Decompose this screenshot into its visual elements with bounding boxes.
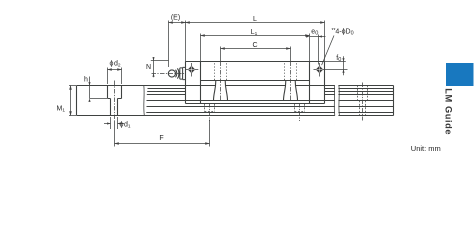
dim N [151,60,169,62]
svg-text:ϕ d2: ϕ d2 [109,61,120,69]
svg-text:e0: e0 [311,29,318,37]
counterbore hole (sectioned) [108,86,122,116]
top dim extension lines [169,21,325,68]
svg-text:L: L [253,16,257,23]
leader 4-phiD0 [322,36,334,66]
hole 2 centerline [290,62,292,102]
LM block outline [186,62,325,104]
left hole centerline [114,81,116,122]
left rail section outline [77,86,145,116]
rail hidden hole in right rail portion [358,86,368,116]
svg-text:f0: f0 [336,55,341,63]
block top mounting hole 1 dashes [215,63,227,80]
rail hidden hole under block left [205,104,215,112]
trumpet 1 sides [214,81,228,101]
svg-text:C: C [252,42,257,49]
rail hidden hole right portion centerline [362,83,364,121]
dim C line [221,48,291,50]
diamond mark right (grease hole) [314,63,326,77]
svg-text:L1: L1 [251,29,258,37]
dim phi-d2 line [108,69,122,71]
dim M1 extension ticks [69,86,76,116]
rail side groove lines left of block [147,89,186,101]
dim e0 line and arrows [310,36,326,38]
diamond mark left (grease hole) [186,63,199,77]
svg-text:Unit: mm: Unit: mm [411,144,441,153]
left rail break line [143,86,146,116]
dim phi-d1 extension lines [111,117,118,129]
trumpet 2 white fill [284,81,298,101]
hole 1 centerline [220,62,222,102]
trumpet 2 sides [284,81,298,101]
rail hidden hole under block right [295,104,305,112]
svg-text:h: h [84,77,88,84]
rail hidden hole left centerline [209,103,211,121]
dim L line [186,22,325,24]
dim f0 line [343,56,345,75]
rail lower lines under block [146,107,393,113]
dim phi-d2 extension lines [108,68,122,85]
block end plate verticals [201,62,310,104]
blue index tab [446,63,474,86]
svg-text:ϕ d1: ϕ d1 [120,122,131,130]
dim phi-d1 arrows [104,123,124,125]
dim F line [115,143,210,145]
svg-text:N: N [146,64,151,71]
rail bottom line right of section [145,115,394,117]
block inner horizontal lines [186,81,325,101]
rail break lines right [334,86,339,116]
rail top line full [77,85,394,87]
svg-text:M1: M1 [57,106,66,114]
svg-text:F: F [159,135,163,142]
svg-text:LM Guide: LM Guide [444,88,454,135]
rail right end [393,86,395,116]
trumpet 1 white fill [214,81,228,101]
rail break gap [335,85,339,117]
grease nipple [168,70,175,77]
dim F extension lines [115,120,210,147]
svg-text:**4-ϕD0: **4-ϕD0 [332,28,354,36]
dim h [90,77,108,99]
rail side groove lines right of block [325,89,394,101]
svg-text:(E): (E) [171,15,180,22]
nipple centerline [152,73,186,75]
dim M1 line [70,86,72,116]
block top mounting hole 2 dashes [285,63,297,80]
dim L1 line [201,35,310,37]
rail hidden hole right centerline [299,103,301,121]
dim E line [169,22,186,24]
dim f0 reference lines [325,62,348,70]
